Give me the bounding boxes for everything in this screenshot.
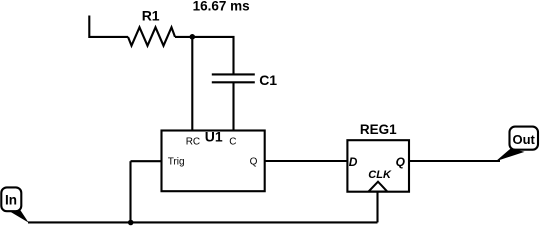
wire: Trig input: [131, 160, 162, 162]
Out connector wedge: [496, 148, 525, 161]
svg-text:U1: U1: [205, 129, 223, 145]
capacitor C1: [212, 73, 255, 75]
svg-text:CLK: CLK: [368, 169, 392, 181]
wire: U1 Q to REG1 D: [265, 160, 348, 162]
svg-text:R1: R1: [142, 8, 160, 24]
clock edge triangle: [369, 182, 388, 192]
register REG1: [347, 140, 409, 192]
wire: CLK down to bus: [376, 192, 378, 223]
resistor R1: [128, 27, 175, 45]
wire: node down to U1 RC pin: [191, 37, 193, 131]
wire: C1 bottom plate to U1 C pin: [232, 82, 234, 130]
wire: R1 to node: [175, 36, 192, 38]
svg-text:C: C: [229, 137, 236, 148]
svg-text:C1: C1: [259, 72, 277, 88]
node junction dot (Trig branch): [128, 220, 134, 226]
In port tag: [1, 187, 21, 211]
wire: open stub into R1: [89, 16, 128, 37]
svg-text:Out: Out: [513, 132, 536, 147]
In connector wedge: [8, 207, 29, 223]
svg-text:16.67 ms: 16.67 ms: [193, 0, 250, 13]
wire: REG1 Q to Out: [409, 160, 500, 162]
node junction dot: [190, 34, 196, 40]
svg-text:Q: Q: [250, 156, 258, 167]
wire: node to C1 top plate: [192, 37, 233, 75]
svg-text:In: In: [5, 193, 17, 208]
wire: Trig branch down to bus: [129, 161, 131, 222]
svg-text:REG1: REG1: [360, 122, 397, 137]
Out port tag: [510, 127, 539, 150]
timer block U1: [162, 131, 265, 192]
svg-text:RC: RC: [186, 137, 200, 148]
svg-text:Trig: Trig: [168, 156, 185, 167]
wire: bottom bus from In to CLK: [28, 221, 378, 223]
svg-text:Q: Q: [396, 155, 406, 169]
svg-text:D: D: [349, 155, 358, 169]
